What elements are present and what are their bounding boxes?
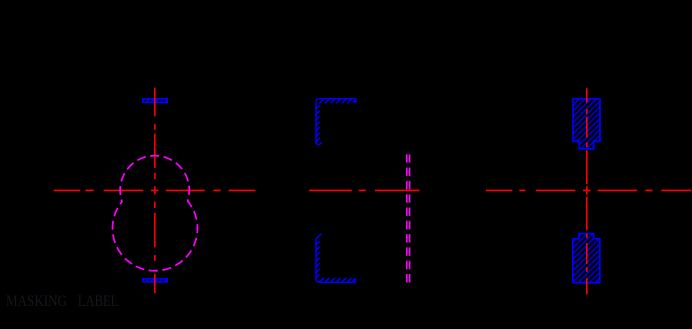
svg-text:LABEL: LABEL [78,293,118,310]
svg-text:MASKING: MASKING [6,293,67,310]
